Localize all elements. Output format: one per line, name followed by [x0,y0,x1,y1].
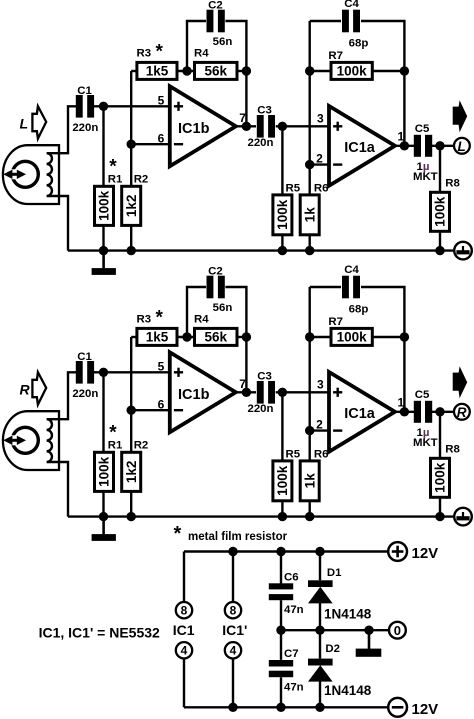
node: feedback node [242,332,251,341]
node: R7/C4 right junction [400,66,409,75]
wire: IC1a output to C5 [395,411,414,413]
wire: cartridge bottom to ground bus [59,196,68,251]
wire: C1 to IC1b pin 5 [94,371,170,373]
IC1' supply pins [232,552,234,602]
node: pin 6 junction [127,406,136,415]
node: D1 +12V [315,547,324,556]
wire: R7 left stub [310,70,331,72]
svg-text:56k: 56k [205,64,228,79]
resistor R2 (right channel) 1k2 [122,452,141,491]
svg-text:IC1a: IC1a [344,406,376,422]
wire: C2 left leg [187,21,206,71]
svg-text:68p: 68p [349,38,369,50]
svg-text:4: 4 [181,644,188,658]
capacitor C1 (left channel) 220n [76,95,83,118]
wire: R3 left stub [131,70,137,72]
node: IC1' +12V [228,547,237,556]
wire: R7 right stub [372,336,404,338]
capacitor C5 (right channel) 1u MKT [414,401,421,423]
node: pin 3 junction [278,388,287,397]
node: R6 ground [305,246,314,255]
wire: ground bus [68,249,453,251]
wire: junction down to R5 [281,392,283,461]
resistor R5 (right channel) 100k [273,461,292,501]
svg-text:R7: R7 [328,316,343,328]
svg-text:C4: C4 [344,264,359,276]
wire: R5 to ground bus [281,235,283,251]
svg-text:R8: R8 [445,177,460,189]
svg-text:C1: C1 [77,85,92,97]
wire: C4/R7 left branch down to pin 2 [309,21,311,165]
svg-text:C3: C3 [257,371,272,383]
resistor R1 (right channel) 100k [95,452,114,491]
wire: junction down to R5 [281,126,283,195]
svg-text:100k: 100k [337,330,368,345]
wire: R1 to ground bus [102,225,104,250]
svg-text:6: 6 [158,397,165,411]
node: R3/R4/C2 junction [182,66,191,75]
wire: junction down to R6 [309,165,311,195]
resistor R8 (right channel) 100k [431,458,450,497]
resistor R8 (left channel) 100k [431,192,450,231]
svg-text:R7: R7 [328,50,343,62]
wire: IC1b output to C3 [236,125,256,127]
wire: C3 to IC1a pin 3 [276,125,329,127]
svg-text:47n: 47n [284,681,304,693]
wire: C2 right leg [225,287,246,337]
wire: R2 to ground bus [130,491,132,516]
wire: right feedback branch down to IC1a output [403,71,405,146]
wire: -12V rail [184,706,388,708]
svg-text:D1: D1 [327,567,342,579]
node: pin 2 junction [305,426,314,435]
capacitor C2 (left channel) 56n [207,10,214,33]
svg-text:1k2: 1k2 [124,195,139,218]
node: R8 ground [435,246,444,255]
cartridge / signal source (left channel) [3,145,59,204]
node: input junction [99,102,108,111]
svg-text:100k: 100k [433,462,448,493]
svg-text:metal film resistor: metal film resistor [188,531,288,543]
svg-text:220n: 220n [248,137,274,149]
svg-text:47n: 47n [284,604,304,616]
svg-text:IC1, IC1' = NE5532: IC1, IC1' = NE5532 [39,625,160,641]
wire: ground bus [68,515,453,517]
output terminal L [454,138,470,154]
wire: junction down to R1 [102,106,104,186]
node: R8 ground [435,512,444,521]
wire: C4/R7 left branch down to pin 2 [309,287,311,431]
svg-text:C6: C6 [284,572,299,584]
svg-text:1k5: 1k5 [146,330,169,345]
resistor R1 (left channel) 100k [95,186,114,225]
svg-text:3: 3 [317,378,324,392]
wire: junction down to R6 [309,431,311,461]
svg-text:*: * [156,308,164,329]
svg-text:0: 0 [394,623,401,638]
IC1 supply pins [183,552,185,602]
node: R1 ground [99,512,108,521]
wire: feedback node down to IC1b output [245,337,247,392]
svg-text:1N4148: 1N4148 [324,683,372,698]
node: R2 ground [127,246,136,255]
svg-text:R8: R8 [445,443,460,455]
svg-text:5: 5 [158,93,165,107]
svg-text:R4: R4 [194,314,209,326]
capacitor C4 (right channel) 68p [342,276,349,299]
terminal -12V [388,698,407,717]
svg-text:12V: 12V [412,545,439,562]
svg-text:1k5: 1k5 [146,64,169,79]
svg-text:R4: R4 [194,48,209,60]
node: input junction [99,368,108,377]
svg-text:C5: C5 [415,123,430,135]
node: output junction [435,141,444,150]
ground symbol (0V) [368,630,371,649]
input arrow L [32,106,46,138]
output arrow (left channel) [453,100,468,132]
ground symbol (right channel) [102,517,105,535]
svg-text:100k: 100k [275,465,290,496]
node: IC1b output [242,122,251,131]
wire: R7 left stub [310,336,331,338]
wire: R4 to feedback node [237,336,246,338]
svg-text:C7: C7 [284,648,299,660]
svg-text:220n: 220n [72,122,98,134]
wire: C3 to IC1a pin 3 [276,391,329,393]
diode D1 1N4148 [319,552,321,581]
wire: junction down to R1 [102,372,104,452]
svg-text:*: * [174,523,182,545]
wire: R3 to R4 [177,336,195,338]
op-amp IC1b (right channel) [170,352,236,432]
resistor R2 (left channel) 1k2 [122,186,141,225]
svg-text:4: 4 [230,644,237,658]
terminal 0 [389,622,406,639]
wire: +12V rail [184,550,388,552]
wire: R4 to feedback node [237,70,246,72]
svg-text:R: R [457,405,467,420]
svg-text:100k: 100k [337,64,368,79]
wire: 0V rail [281,629,389,631]
svg-text:1N4148: 1N4148 [324,607,372,622]
svg-text:3: 3 [317,112,324,126]
svg-text:100k: 100k [97,456,112,487]
svg-text:R6: R6 [314,182,329,194]
svg-text:12V: 12V [412,701,439,718]
svg-text:1k: 1k [302,473,317,489]
wire: IC1a output to C5 [395,145,414,147]
node: R5 ground [278,246,287,255]
svg-text:R1: R1 [108,440,123,452]
svg-text:220n: 220n [72,388,98,400]
node: pin 6 junction [127,140,136,149]
node: R7/C4 right junction [400,332,409,341]
wire: junction to IC1a pin 2 [310,429,329,431]
svg-text:100k: 100k [97,190,112,221]
node: pin 3 junction [278,122,287,131]
wire: R7 right stub [372,70,404,72]
svg-text:56k: 56k [205,330,228,345]
svg-text:R3: R3 [137,48,152,60]
svg-text:6: 6 [158,131,165,145]
capacitor C4 (left channel) 68p [342,10,349,33]
terminal +12V [388,542,407,561]
earth terminal (left channel) [454,242,472,260]
svg-text:220n: 220n [248,403,274,415]
node: output junction [435,407,444,416]
resistor R4 (right channel) 56k [195,328,238,345]
node: IC1b output [242,388,251,397]
node: R7/C4 left junction [305,66,314,75]
svg-text:R6: R6 [314,448,329,460]
wire: R6 to ground bus [309,501,311,517]
node: IC1' -12V [228,703,237,712]
svg-text:IC1a: IC1a [344,140,376,156]
svg-text:R3: R3 [137,314,152,326]
op-amp IC1b (left channel) [170,86,236,166]
svg-text:IC1: IC1 [173,622,195,638]
ground symbol (left channel) [102,251,105,269]
wire: R3/R2 vertical branch [130,337,132,452]
svg-text:56n: 56n [213,36,233,48]
wire: junction down to R8 [439,412,441,459]
wire: C5 to output terminal [432,411,453,413]
capacitor C6 47n [280,552,282,584]
svg-text:100k: 100k [275,199,290,230]
svg-text:R5: R5 [286,183,301,195]
svg-text:R5: R5 [286,449,301,461]
svg-text:2: 2 [316,151,323,165]
svg-text:C3: C3 [257,105,272,117]
svg-text:*: * [156,42,164,63]
diode D2 1N4148 [319,630,321,658]
svg-text:8: 8 [230,604,237,618]
capacitor C2 (right channel) 56n [207,276,214,299]
node: R3/R4/C2 junction [182,332,191,341]
wire: R2 to ground bus [130,225,132,250]
wire: C4 right leg [361,21,404,71]
resistor R6 (right channel) 1k [300,461,319,501]
node: R5 ground [278,512,287,521]
svg-text:8: 8 [181,604,188,618]
wire: junction to IC1b pin 6 [131,409,170,411]
node: D1/D2 0V junction [315,626,324,635]
op-amp IC1a (left channel) [329,106,395,186]
svg-text:IC1b: IC1b [178,121,210,137]
svg-text:1k2: 1k2 [124,461,139,484]
svg-text:L: L [20,115,29,131]
wire: junction to IC1a pin 2 [310,163,329,165]
svg-text:R2: R2 [134,174,149,186]
wire: C4 right leg [361,287,404,337]
node: IC1a output [400,407,409,416]
wire: cartridge top to C1 [59,106,76,153]
node: feedback node [242,66,251,75]
op-amp IC1a (right channel) [329,372,395,452]
svg-text:D2: D2 [325,643,340,655]
svg-text:68p: 68p [349,304,369,316]
svg-text:R1: R1 [108,174,123,186]
resistor R4 (left channel) 56k [195,62,238,79]
wire: C5 to output terminal [432,145,453,147]
wire: R3/R2 vertical branch [130,71,132,186]
node: R6 ground [305,512,314,521]
capacitor C3 (left channel) 220n [257,115,264,138]
wire: C4 left leg [310,20,341,22]
node: R2 ground [127,512,136,521]
wire: feedback node down to IC1b output [245,71,247,126]
wire: C2 right leg [225,21,246,71]
earth terminal (right channel) [454,508,472,526]
cartridge / signal source (right channel) [3,411,59,470]
wire: C2 left leg [187,287,206,337]
node: IC1a output [400,141,409,150]
svg-text:100k: 100k [433,196,448,227]
wire: R8 to ground bus [439,497,441,516]
wire: junction down to R8 [439,146,441,193]
wire: C4 left leg [310,286,341,288]
wire: R5 to ground bus [281,501,283,517]
svg-text:56n: 56n [213,302,233,314]
node: C6 +12V [276,547,285,556]
svg-text:C1: C1 [77,351,92,363]
wire: right feedback branch down to IC1a output [403,337,405,412]
node: C6/C7 0V junction [276,626,285,635]
resistor R6 (left channel) 1k [300,195,319,235]
output arrow (right channel) [453,366,468,398]
node: C7 -12V [276,703,285,712]
wire: R8 to ground bus [439,231,441,250]
svg-text:MKT: MKT [413,437,438,449]
wire: R3 left stub [131,336,137,338]
input arrow R [32,372,46,404]
node: D2 -12V [315,703,324,712]
wire: junction to IC1b pin 6 [131,143,170,145]
capacitor C5 (left channel) 1u MKT [414,135,421,157]
svg-text:C4: C4 [344,0,359,10]
node: R7/C4 left junction [305,332,314,341]
node: pin 2 junction [305,160,314,169]
resistor R5 (left channel) 100k [273,195,292,235]
svg-text:C2: C2 [208,265,223,277]
svg-text:IC1b: IC1b [178,387,210,403]
wire: IC1b output to C3 [236,391,256,393]
wire: cartridge top to C1 [59,372,76,419]
node: ground stub on 0V rail [364,626,373,635]
capacitor C3 (right channel) 220n [257,381,264,404]
wire: R6 to ground bus [309,235,311,251]
node: R1 ground [99,246,108,255]
svg-text:IC1': IC1' [222,622,247,638]
wire: R3 to R4 [177,70,195,72]
svg-text:R: R [20,381,31,397]
wire: R1 to ground bus [102,491,104,516]
svg-text:C5: C5 [415,389,430,401]
capacitor C7 47n [280,630,282,660]
svg-text:2: 2 [316,417,323,431]
svg-text:1k: 1k [302,207,317,223]
svg-text:L: L [457,139,465,154]
output terminal R [454,404,470,420]
wire: C1 to IC1b pin 5 [94,105,170,107]
svg-text:MKT: MKT [413,171,438,183]
svg-text:C2: C2 [208,0,223,11]
svg-text:5: 5 [158,359,165,373]
capacitor C1 (right channel) 220n [76,361,83,384]
wire: cartridge bottom to ground bus [59,462,68,517]
svg-text:R2: R2 [134,440,149,452]
